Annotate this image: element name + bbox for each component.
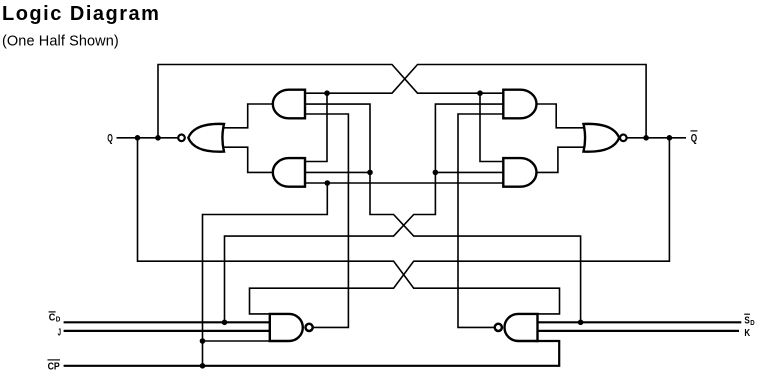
- wire G2.in2 stub to SD-bar net junction: [306, 171, 370, 173]
- junction dot Q line / top rail: [155, 135, 161, 141]
- junction dot SD line: [578, 320, 584, 326]
- wire CP net: CP line dot up to G2.in3/G5.in3 line: [203, 183, 328, 366]
- wire G3.in1 vertical to G5.in1: [480, 93, 506, 161]
- wire Q feedback up to top rail, across, X-cross down to G3 input rail: [158, 65, 503, 138]
- svg-text:D: D: [750, 320, 754, 327]
- overline of Q-bar: [691, 130, 698, 132]
- overline of SD-bar: [744, 313, 750, 315]
- NAND gate G7 (bottom-right, K clock gate, mirrored): [505, 314, 538, 341]
- wire Q-bar output line: [628, 137, 687, 139]
- NOR gate U1 output bubble: [178, 135, 185, 142]
- junction dot CP / G6.in4: [200, 338, 206, 344]
- svg-text:Q: Q: [691, 133, 698, 145]
- svg-text:C: C: [49, 313, 56, 324]
- NAND gate G6 output bubble: [306, 324, 313, 331]
- svg-text:(One Half Shown): (One Half Shown): [2, 34, 119, 50]
- junction dot Q line / down-coupling: [135, 135, 141, 141]
- junction dot CD line: [222, 320, 228, 326]
- wire G5 output to NOR U2 bottom input: [533, 147, 586, 172]
- wire G6 output up to G1.in3: [300, 114, 348, 327]
- svg-text:CP: CP: [48, 362, 60, 373]
- wire J input line: [64, 330, 272, 332]
- wire Q cross-couple: Q dot down, across, X3 cross, down to G7.in1: [138, 138, 560, 314]
- wire G1 output to NOR U1 top input: [222, 104, 277, 128]
- AND gate G3 (top-right): [503, 90, 536, 119]
- wire CD-bar input line: [64, 321, 272, 323]
- junction dot CP line: [200, 363, 206, 369]
- wire G6.in4 from CP junction: [203, 340, 276, 342]
- wire CP-bar input line, up to G7.in4: [64, 341, 560, 366]
- svg-text:S: S: [744, 315, 750, 326]
- NAND gate G6 (bottom-left, J clock gate): [270, 314, 303, 341]
- svg-text:K: K: [744, 328, 750, 339]
- NAND gate G7 output bubble: [495, 324, 502, 331]
- wire G3 output to NOR U2 top input: [533, 104, 586, 128]
- junction dot G1.in1 rail: [324, 90, 330, 96]
- AND gate G1 (top-left, mirrored): [273, 90, 305, 119]
- wire G7 output up to G3.in3: [458, 114, 506, 327]
- overline of CP-bar: [48, 359, 61, 361]
- wire Q-bar feedback up to top rail, across, X-cross down to G1 input rail: [305, 65, 646, 138]
- wire CD-bar net: CD line dot up, across, X2 cross, up to G3.in2 and G5.in2: [225, 104, 504, 322]
- junction dot G3.in1 rail: [477, 90, 483, 96]
- wire SD-bar input line: [535, 321, 741, 323]
- AND gate G2 (bottom-left, mirrored): [273, 158, 305, 187]
- wire Q-bar cross-couple: Q-bar dot down, across, X3 cross, down to G6.in1: [250, 138, 670, 314]
- wire shared G2.in3/G5.in3 line: [303, 182, 505, 184]
- wire G2 output to NOR U1 bottom input: [222, 147, 277, 172]
- svg-text:D: D: [56, 317, 61, 324]
- wire G1.in1 vertical to G2.in1: [306, 93, 327, 161]
- AND gate G5 (bottom-right): [503, 158, 536, 187]
- wire K input line: [535, 330, 739, 332]
- junction dot Q-bar line / down-coupling: [667, 135, 673, 141]
- junction dot G2.in2 / SD net: [367, 170, 373, 176]
- NOR gate U2 (right, drives Q-bar): [584, 124, 620, 152]
- junction dot Q-bar line / top rail: [643, 135, 649, 141]
- junction dot G5.in2 / CD net: [433, 170, 439, 176]
- NOR gate U1 (left, mirrored, drives Q): [188, 124, 224, 152]
- svg-text:J: J: [58, 328, 61, 339]
- wire SD-bar net: SD line dot up, across, X2 cross, up to G1.in2 and G2.in2: [305, 104, 581, 322]
- svg-text:Q: Q: [107, 132, 113, 144]
- wire Q output line: [117, 137, 178, 139]
- NOR gate U2 output bubble: [620, 135, 627, 142]
- wire G5.in2 stub to CD-bar net junction: [435, 171, 505, 173]
- junction dot CP net / in3 line: [325, 180, 331, 186]
- overline of CD-bar: [49, 311, 56, 313]
- svg-text:Logic Diagram: Logic Diagram: [2, 3, 160, 25]
